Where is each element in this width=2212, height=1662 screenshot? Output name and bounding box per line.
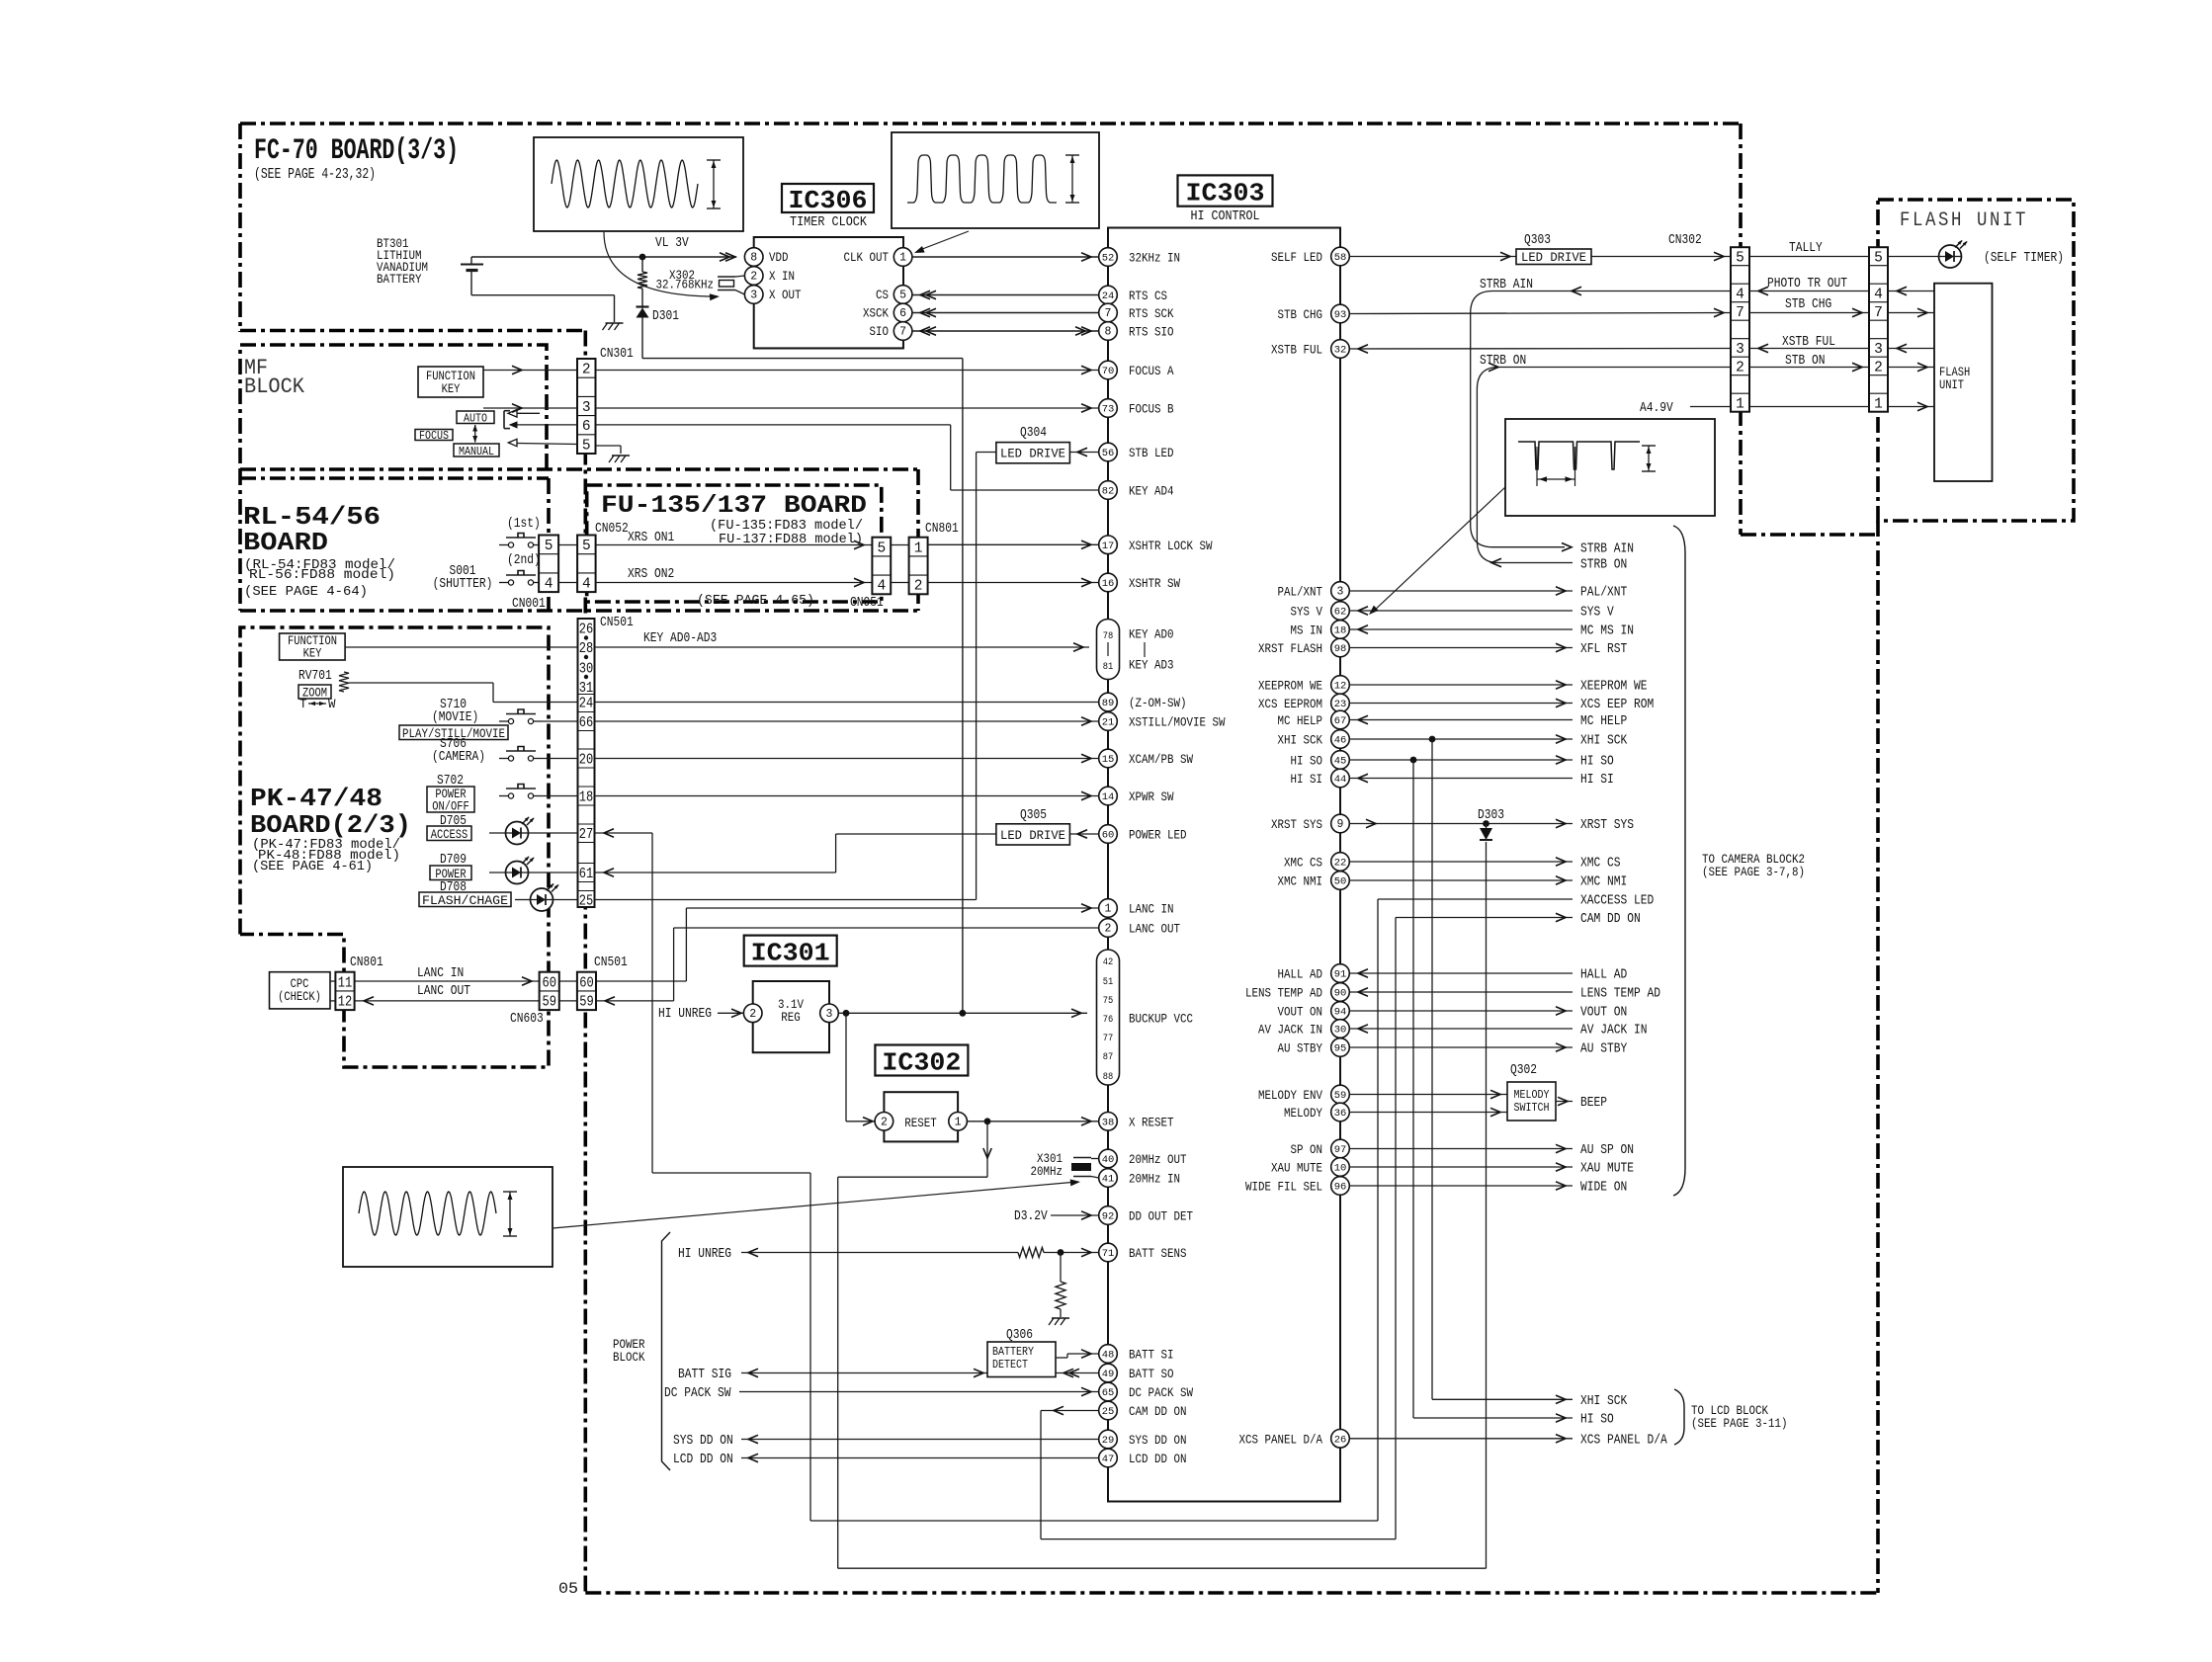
svg-text:42: 42 xyxy=(1103,956,1114,968)
wire reset branch vertical xyxy=(845,1013,847,1122)
brace to camera block xyxy=(1673,526,1685,1196)
svg-text:96: 96 xyxy=(1334,1182,1347,1194)
svg-text:XSHTR LOCK SW: XSHTR LOCK SW xyxy=(1129,539,1213,553)
svg-text:76: 76 xyxy=(1103,1014,1114,1026)
svg-text:60: 60 xyxy=(1102,830,1115,842)
wire CPC to CN801-11 xyxy=(330,980,335,982)
wire CN501-66 to pin 21 xyxy=(595,720,1099,722)
IC302 label box xyxy=(875,1045,968,1076)
Q303 LED DRIVE box xyxy=(1516,249,1591,265)
CPC CHECK box xyxy=(270,972,331,1009)
IC306 pin 6 XSCK xyxy=(893,303,912,322)
wire into IC302 pin 2 xyxy=(846,1121,875,1122)
wire CAM DD ON label xyxy=(1396,917,1573,919)
wire STRB ON from CN302-2 xyxy=(1477,368,1731,563)
svg-text:5: 5 xyxy=(899,290,906,302)
svg-text:16: 16 xyxy=(1102,578,1115,590)
switch S706 pushbutton xyxy=(508,756,513,761)
IC303 pin 73 FOCUS B xyxy=(1099,399,1118,418)
svg-text:KEY AD0-AD3: KEY AD0-AD3 xyxy=(643,631,717,646)
svg-text:RTS SIO: RTS SIO xyxy=(1129,325,1174,340)
svg-text:20MHz IN: 20MHz IN xyxy=(1129,1172,1180,1187)
svg-text:22: 22 xyxy=(1334,858,1347,870)
svg-text:A4.9V: A4.9V xyxy=(1640,401,1673,416)
svg-text:XEEPROM WE: XEEPROM WE xyxy=(1258,679,1322,694)
IC303 pins 78-81 KEY AD0-AD3 pill xyxy=(1097,620,1120,680)
IC303 pin 7 RTS SCK xyxy=(1099,303,1118,322)
svg-text:4: 4 xyxy=(545,577,553,593)
resistor on backup branch xyxy=(641,257,643,272)
svg-text:(SELF TIMER): (SELF TIMER) xyxy=(1984,251,2064,266)
FC-70 board border left (x=593) through CN301/CN501 xyxy=(583,331,587,1594)
svg-text:12: 12 xyxy=(338,995,353,1011)
svg-text:IC302: IC302 xyxy=(882,1048,961,1078)
switch S710 pushbutton xyxy=(508,718,513,723)
wire/net SYS V xyxy=(1349,610,1573,612)
MF BLOCK border xyxy=(240,345,547,469)
pointer line from sine box to pin 41 20MHz IN xyxy=(553,1182,1077,1228)
svg-text:STB LED: STB LED xyxy=(1129,446,1174,460)
svg-text:2: 2 xyxy=(582,363,591,378)
brace to LCD block xyxy=(1674,1389,1684,1445)
wire STB ON xyxy=(1749,367,1869,369)
wire pin 58 SELF LED to Q303 xyxy=(1349,256,1516,258)
connector CN051 xyxy=(872,538,891,595)
IC303 pin 30 AV JACK IN xyxy=(1331,1020,1350,1039)
svg-text:KEY: KEY xyxy=(303,647,322,661)
switch AUTO box xyxy=(457,411,494,424)
svg-text:FOCUS B: FOCUS B xyxy=(1129,402,1174,417)
svg-text:2: 2 xyxy=(1736,360,1744,375)
PK function key box xyxy=(280,633,346,660)
wire D303 cathode riser xyxy=(1486,842,1488,1568)
IC303 pin 94 VOUT ON xyxy=(1331,1002,1350,1021)
wire RV701 to CN501-24 xyxy=(349,682,493,684)
IC303 pin 25 CAM DD ON xyxy=(1099,1401,1118,1420)
svg-text:XHI SCK: XHI SCK xyxy=(1580,734,1628,749)
connector CN302 right (flash side) xyxy=(1869,247,1888,412)
IC303 pin 22 XMC CS xyxy=(1331,853,1350,872)
svg-text:(SHUTTER): (SHUTTER) xyxy=(433,577,493,592)
svg-text:62: 62 xyxy=(1334,607,1347,619)
svg-text:BATT SIG: BATT SIG xyxy=(678,1368,731,1382)
svg-text:32KHz IN: 32KHz IN xyxy=(1129,251,1180,266)
svg-text:Q302: Q302 xyxy=(1510,1063,1537,1078)
Q304 LED DRIVE box xyxy=(996,443,1070,463)
svg-text:92: 92 xyxy=(1102,1211,1115,1223)
wire function key to CN301-2 (FOCUS A) xyxy=(483,370,577,372)
svg-text:CN301: CN301 xyxy=(600,347,634,362)
wire A4.9V feed xyxy=(1749,406,1869,408)
svg-text:BATT SO: BATT SO xyxy=(1129,1367,1174,1381)
svg-text:75: 75 xyxy=(1103,995,1114,1007)
svg-text:VL 3V: VL 3V xyxy=(655,236,689,251)
wire Q304 STB LED vertical xyxy=(976,453,978,900)
pointer arc from sine box to X302 xyxy=(604,232,717,296)
wire/net XAU MUTE xyxy=(1349,1166,1573,1168)
svg-text:HI SI: HI SI xyxy=(1291,772,1323,787)
svg-text:9: 9 xyxy=(1337,818,1344,831)
svg-text:3: 3 xyxy=(1874,342,1883,358)
svg-text:XFL RST: XFL RST xyxy=(1580,642,1627,657)
switch MANUAL box xyxy=(454,444,499,457)
ACCESS box xyxy=(427,826,471,841)
svg-text:XSTB FUL: XSTB FUL xyxy=(1271,343,1322,358)
svg-text:LED DRIVE: LED DRIVE xyxy=(1000,829,1065,843)
IC303 pin 46 XHI SCK xyxy=(1331,730,1350,749)
junction 3.1V to backup diode rail xyxy=(960,1010,967,1017)
svg-text:WIDE ON: WIDE ON xyxy=(1580,1181,1627,1196)
svg-text:FLASH/CHAGE: FLASH/CHAGE xyxy=(422,894,508,908)
IC303 pin 1 LANC IN xyxy=(1099,899,1118,918)
wire flash pin2 xyxy=(1888,367,1934,369)
svg-text:8: 8 xyxy=(750,252,757,265)
LED self timer xyxy=(1939,245,1962,268)
switch FOCUS box xyxy=(415,430,453,441)
svg-text:32: 32 xyxy=(1334,345,1347,357)
svg-text:66: 66 xyxy=(579,715,594,731)
IC303 pin 65 DC PACK SW xyxy=(1099,1382,1118,1401)
svg-text:X IN: X IN xyxy=(769,269,795,284)
IC303 pin 45 HI SO xyxy=(1331,751,1350,770)
svg-text:RV701: RV701 xyxy=(298,669,332,684)
wire flash pin1 xyxy=(1888,406,1934,408)
waveform box sine bottom xyxy=(343,1167,553,1267)
wire RTS SCK to XSCK xyxy=(912,312,1099,314)
wire Q303 to CN302-5 xyxy=(1591,256,1731,258)
svg-text:BLOCK: BLOCK xyxy=(613,1350,645,1365)
wire/net XRST SYS xyxy=(1349,823,1573,825)
svg-text:XSTILL/MOVIE SW: XSTILL/MOVIE SW xyxy=(1129,715,1226,730)
svg-text:MELODY: MELODY xyxy=(1514,1088,1550,1102)
svg-text:48: 48 xyxy=(1102,1350,1115,1362)
svg-text:(SEE PAGE 3-11): (SEE PAGE 3-11) xyxy=(1691,1416,1788,1431)
svg-text:RL-56:FD88 model): RL-56:FD88 model) xyxy=(249,568,395,583)
svg-text:LANC OUT: LANC OUT xyxy=(1129,922,1180,937)
wire XSTB FUL xyxy=(1749,348,1869,350)
resistor in BATT SENS line xyxy=(1018,1248,1044,1258)
svg-text:XRST SYS: XRST SYS xyxy=(1271,817,1322,832)
svg-text:CN302: CN302 xyxy=(1668,233,1702,248)
svg-text:KEY: KEY xyxy=(442,382,461,396)
svg-text:56: 56 xyxy=(1102,448,1115,459)
svg-text:59: 59 xyxy=(542,995,556,1011)
wire SYS DD ON from pin 29 xyxy=(741,1439,1099,1441)
svg-text:44: 44 xyxy=(1334,774,1347,786)
svg-text:XSCK: XSCK xyxy=(863,306,889,321)
IC303 pin 36 MELODY xyxy=(1331,1103,1350,1122)
IC303 pin 47 LCD DD ON xyxy=(1099,1449,1118,1467)
svg-text:W: W xyxy=(328,698,336,711)
wire pin 49 BATT SO to battery detect xyxy=(1056,1372,1099,1374)
wire DC PACK SW to pin 65 xyxy=(739,1391,1099,1393)
svg-text:ACCESS: ACCESS xyxy=(431,828,468,842)
wire CN501-27 from XACCESS route xyxy=(595,832,653,834)
IC303 pin 15 XCAM/PB SW xyxy=(1099,749,1118,768)
RV701 resistor symbol xyxy=(339,672,349,692)
svg-text:52: 52 xyxy=(1102,253,1115,265)
svg-text:CN052: CN052 xyxy=(595,522,629,537)
wire XRS ON1 xyxy=(596,544,873,546)
wire/net AU SP ON xyxy=(1349,1148,1573,1150)
svg-text:AV JACK IN: AV JACK IN xyxy=(1580,1024,1648,1039)
svg-text:UNIT: UNIT xyxy=(1939,378,1964,392)
IC303 label box xyxy=(1178,175,1273,206)
junction reset output xyxy=(984,1118,991,1124)
svg-text:32.768KHz: 32.768KHz xyxy=(656,278,715,292)
IC303 pin 23 XCS EEPROM xyxy=(1331,694,1350,712)
wire LCD DD ON from pin 47 xyxy=(741,1457,1099,1459)
wire CN603-60 to CN501-60 xyxy=(559,980,577,982)
svg-text:18: 18 xyxy=(579,790,594,806)
wire CN603-59 to CN501-59 xyxy=(559,1000,577,1002)
IC303 pin 21 XSTILL/MOVIE SW xyxy=(1099,712,1118,731)
waveform box sine 32kHz xyxy=(534,137,743,231)
IC303 pin 2 LANC OUT xyxy=(1099,919,1118,938)
wire S710 to CN501-66 xyxy=(543,720,578,722)
svg-text:HI SO: HI SO xyxy=(1580,1413,1614,1428)
svg-text:PK-47/48: PK-47/48 xyxy=(250,784,383,813)
svg-text:BUCKUP VCC: BUCKUP VCC xyxy=(1129,1012,1193,1027)
svg-text:XCS PANEL D/A: XCS PANEL D/A xyxy=(1580,1433,1667,1448)
wire CN801-1 to pin 17 xyxy=(928,543,1099,545)
shared dash-dot line A (MF bottom / FU outer top) xyxy=(240,467,918,471)
wire selector to CN301-5 xyxy=(508,439,517,446)
wire KEY AD4 from CN301-6 xyxy=(596,424,951,426)
IC303 pin 8 RTS SIO xyxy=(1099,322,1118,341)
svg-text:(MOVIE): (MOVIE) xyxy=(432,710,478,725)
svg-text:58: 58 xyxy=(1334,252,1347,264)
svg-text:BOARD: BOARD xyxy=(243,528,328,557)
svg-text:IC301: IC301 xyxy=(751,939,830,968)
ground at CN301-5 xyxy=(612,455,630,457)
svg-text:SIO: SIO xyxy=(870,324,890,339)
svg-text:CAM DD ON: CAM DD ON xyxy=(1580,912,1641,927)
svg-text:1: 1 xyxy=(1105,903,1112,916)
svg-text:(CAMERA): (CAMERA) xyxy=(432,750,485,765)
wire TALLY between connectors xyxy=(1749,256,1869,258)
svg-text:FOCUS: FOCUS xyxy=(419,429,449,443)
IC301 label box xyxy=(744,936,837,966)
svg-text:VOUT ON: VOUT ON xyxy=(1278,1005,1323,1020)
IC303 pin 18 MS IN xyxy=(1331,621,1350,639)
svg-text:Q303: Q303 xyxy=(1524,233,1551,248)
svg-text:73: 73 xyxy=(1102,404,1115,416)
IC303 pin 16 XSHTR SW xyxy=(1099,573,1118,592)
svg-text:PAL/XNT: PAL/XNT xyxy=(1278,585,1323,600)
junction 3.1V to reset branch xyxy=(843,1010,850,1017)
LED D705 ACCESS xyxy=(506,822,529,845)
svg-text:30: 30 xyxy=(1334,1025,1347,1037)
svg-text:D301: D301 xyxy=(652,309,679,324)
svg-text:4: 4 xyxy=(1736,287,1744,302)
wire/net BEEP xyxy=(1556,1101,1573,1103)
IC306 pin 3 X OUT xyxy=(744,286,763,304)
wire pin 59 MELODY ENV to Q302 xyxy=(1349,1094,1507,1096)
wire HI SO to LCD block xyxy=(1412,760,1414,1418)
svg-text:REG: REG xyxy=(781,1010,801,1025)
IC303 pin 90 LENS TEMP AD xyxy=(1331,983,1350,1002)
wire pin 70 FOCUS A xyxy=(596,370,1099,372)
wire pin 26 XCS PANEL D/A to LCD block xyxy=(1349,1438,1573,1440)
svg-text:94: 94 xyxy=(1334,1007,1347,1019)
svg-text:BATTERY: BATTERY xyxy=(992,1345,1034,1359)
svg-text:XCS EEP ROM: XCS EEP ROM xyxy=(1580,698,1654,712)
svg-text:21: 21 xyxy=(1102,717,1115,729)
pointer line from pulse box to pin 62 SYS V xyxy=(1372,487,1505,613)
connector CN001 xyxy=(539,536,558,593)
svg-text:SELF LED: SELF LED xyxy=(1271,250,1322,265)
resistor to ground (BATT SENS divider) xyxy=(1060,1253,1062,1283)
wire RTS CS to CS xyxy=(912,294,1099,296)
IC301 regulator body xyxy=(753,981,829,1052)
svg-text:5: 5 xyxy=(582,539,591,554)
svg-text:88: 88 xyxy=(1103,1071,1114,1083)
svg-text:CAM DD ON: CAM DD ON xyxy=(1129,1404,1187,1419)
CN501 bus dots xyxy=(584,635,588,639)
connector CN052 xyxy=(577,536,596,593)
svg-text:45: 45 xyxy=(1334,756,1347,768)
wire CN051-4 to CN801-2 xyxy=(891,582,908,584)
IC303 pin 24 RTS CS xyxy=(1099,286,1118,304)
svg-text:2: 2 xyxy=(1874,360,1883,375)
junction XHI SCK branch xyxy=(1429,736,1436,743)
connector CN501 (LANC) xyxy=(577,972,596,1010)
IC303 pin 40 20MHz OUT xyxy=(1099,1149,1118,1168)
wire D708 to CN501-25 xyxy=(515,899,531,901)
svg-text:TALLY: TALLY xyxy=(1789,241,1823,256)
wire CAM DD ON from pin 25 xyxy=(1041,1410,1099,1412)
svg-text:(CHECK): (CHECK) xyxy=(278,990,321,1004)
svg-text:(Z-OM-SW): (Z-OM-SW) xyxy=(1129,696,1187,710)
svg-text:(SEE PAGE 3-7,8): (SEE PAGE 3-7,8) xyxy=(1702,865,1805,879)
svg-text:2: 2 xyxy=(1105,923,1112,936)
svg-text:7: 7 xyxy=(1736,305,1744,321)
switch S001 2nd pushbutton xyxy=(508,580,513,585)
wire S702 to CN501-18 xyxy=(543,795,578,797)
svg-text:STB ON: STB ON xyxy=(1785,354,1826,369)
svg-text:XPWR SW: XPWR SW xyxy=(1129,789,1174,804)
svg-text:SYS V: SYS V xyxy=(1291,605,1323,620)
svg-text:MELODY ENV: MELODY ENV xyxy=(1258,1088,1322,1103)
svg-text:15: 15 xyxy=(1102,754,1115,766)
svg-text:STRB AIN: STRB AIN xyxy=(1580,542,1634,557)
wire XHI SCK to LCD block xyxy=(1431,739,1433,1399)
wire CN501-20 to pin 15 xyxy=(595,758,1099,760)
svg-text:PAL/XNT: PAL/XNT xyxy=(1580,586,1627,601)
svg-text:18: 18 xyxy=(1334,625,1347,637)
wire pin 93 STB CHG to CN302-7 xyxy=(1349,313,1731,314)
wire IC302 pin1 to pin 38 X RESET xyxy=(968,1121,1099,1122)
svg-text:X OUT: X OUT xyxy=(769,288,802,302)
svg-text:14: 14 xyxy=(1102,791,1115,803)
svg-text:(FU-135:FD83 model/: (FU-135:FD83 model/ xyxy=(710,519,863,534)
svg-text:XMC CS: XMC CS xyxy=(1284,856,1322,871)
wire BATT SENS to HI UNREG xyxy=(741,1252,1018,1254)
svg-text:3: 3 xyxy=(750,290,757,302)
svg-text:4: 4 xyxy=(1874,287,1883,302)
svg-text:93: 93 xyxy=(1334,309,1347,321)
wire LANC OUT CN603-59 to CN801-12 xyxy=(355,1000,540,1002)
IC303 pin 98 XRST FLASH xyxy=(1331,638,1350,657)
RL-54/56 board border xyxy=(240,469,549,611)
svg-text:98: 98 xyxy=(1334,643,1347,655)
svg-text:38: 38 xyxy=(1102,1117,1115,1128)
wire/net WIDE ON xyxy=(1349,1185,1573,1187)
svg-text:27: 27 xyxy=(579,827,594,843)
svg-text:LANC OUT: LANC OUT xyxy=(417,984,470,999)
svg-text:FLASH UNIT: FLASH UNIT xyxy=(1900,209,2028,232)
switch S001 1st pushbutton xyxy=(508,542,513,547)
IC303 pin 82 KEY AD4 xyxy=(1099,481,1118,500)
wire flash pin7 xyxy=(1888,312,1934,314)
IC303 pin 48 BATT SI xyxy=(1099,1345,1118,1364)
svg-text:STB CHG: STB CHG xyxy=(1278,307,1323,322)
svg-text:AU STBY: AU STBY xyxy=(1580,1042,1627,1057)
svg-text:65: 65 xyxy=(1102,1387,1115,1399)
IC306 pin 1 CLK OUT xyxy=(893,248,912,267)
wire battery negative to ground xyxy=(471,294,615,296)
connector CN501 (keys) xyxy=(578,619,595,907)
wire CN501-18 to pin 14 xyxy=(595,795,1099,797)
wire flash pin4 xyxy=(1888,291,1934,292)
svg-text:LENS TEMP AD: LENS TEMP AD xyxy=(1580,987,1660,1002)
svg-text:DC PACK SW: DC PACK SW xyxy=(1129,1385,1193,1400)
svg-text:(1st): (1st) xyxy=(507,517,541,532)
wire LANC OUT from pin 2 xyxy=(674,927,1099,929)
svg-text:KEY AD0: KEY AD0 xyxy=(1129,627,1174,642)
IC303 pin 71 BATT SENS xyxy=(1099,1243,1118,1262)
ZOOM box xyxy=(298,685,331,699)
svg-text:XHI SCK: XHI SCK xyxy=(1580,1394,1628,1409)
wire LANC IN to pin 1 xyxy=(686,907,1098,909)
IC303 pin 9 XRST SYS xyxy=(1331,814,1350,833)
wire CN501-61 from Q305 route xyxy=(595,872,836,873)
wire XACCESS LED label xyxy=(1378,898,1573,900)
svg-text:1: 1 xyxy=(955,1116,962,1128)
svg-text:STRB AIN: STRB AIN xyxy=(1480,278,1533,292)
svg-text:3: 3 xyxy=(826,1008,833,1021)
wire selector to CN301-6 xyxy=(517,424,577,426)
IC303 pin 29 SYS DD ON xyxy=(1099,1430,1118,1449)
wire/net HI SO xyxy=(1349,759,1573,761)
svg-text:82: 82 xyxy=(1102,486,1115,498)
svg-text:8: 8 xyxy=(1105,326,1112,339)
svg-text:50: 50 xyxy=(1334,876,1347,888)
svg-text:XMC NMI: XMC NMI xyxy=(1278,874,1323,889)
svg-text:FLASH: FLASH xyxy=(1939,366,1970,379)
battery BT301 symbol xyxy=(470,257,472,265)
svg-text:17: 17 xyxy=(1102,540,1115,552)
svg-text:3: 3 xyxy=(1337,586,1344,599)
svg-text:MC MS IN: MC MS IN xyxy=(1580,624,1634,639)
svg-text:(2nd): (2nd) xyxy=(507,553,541,568)
FU outer border right through CN801 xyxy=(916,469,920,611)
svg-text:(SEE PAGE 4-61): (SEE PAGE 4-61) xyxy=(252,860,373,874)
wire PHOTO TR OUT xyxy=(1749,291,1869,292)
svg-text:CN051: CN051 xyxy=(850,596,884,611)
wire CPC to CN801-12 xyxy=(330,1000,335,1002)
IC303 pin 60 POWER LED xyxy=(1099,825,1118,844)
svg-text:24: 24 xyxy=(1102,291,1115,302)
wire A4.9V to CN302-1 xyxy=(1690,406,1731,408)
wire STRB AIN from CN302-4 xyxy=(1471,291,1731,547)
IC306 pin 2 X IN xyxy=(744,267,763,286)
svg-text:LED DRIVE: LED DRIVE xyxy=(1000,448,1065,461)
svg-text:10: 10 xyxy=(1334,1163,1347,1175)
svg-text:28: 28 xyxy=(579,641,594,657)
svg-text:51: 51 xyxy=(1103,976,1114,988)
